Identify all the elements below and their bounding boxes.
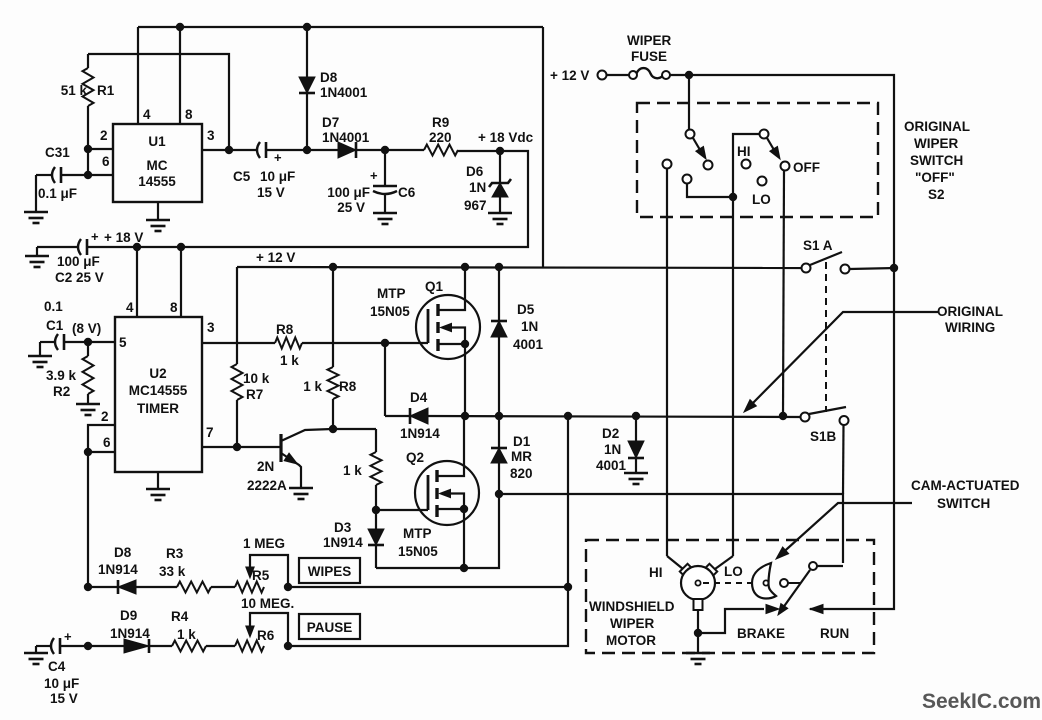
- svg-text:"OFF": "OFF": [915, 170, 955, 185]
- node: D5/D1 column on row: [495, 412, 503, 420]
- node: motor ground/brake junction: [694, 629, 702, 637]
- svg-text:6: 6: [102, 154, 110, 169]
- wire: pin6 node down to wipes row: [87, 452, 89, 587]
- diode D5 1N4001: [498, 267, 500, 321]
- svg-text:3.9 k: 3.9 k: [46, 368, 77, 383]
- svg-text:LO: LO: [724, 564, 743, 579]
- switch S2 pole A top contact: [686, 130, 695, 139]
- resistor R8 1k (collector load): [332, 267, 334, 367]
- switch S2 pole A throw contact: [704, 161, 713, 170]
- node: pin3/R1 feedback: [225, 146, 233, 154]
- fuse WIPER FUSE: [629, 71, 637, 79]
- svg-text:C5: C5: [233, 169, 251, 184]
- svg-text:1 k: 1 k: [177, 627, 196, 642]
- dashed box S2 original wiper switch: [637, 103, 878, 217]
- svg-text:100 μF: 100 μF: [57, 254, 100, 269]
- wire: U2 pin7 row: [202, 446, 279, 448]
- diode D2 1N4001: [635, 416, 637, 441]
- node: wipes/riser junction: [564, 583, 572, 591]
- wire: pin6 of U1: [61, 174, 113, 176]
- wire: U1 pin 4 riser: [137, 27, 139, 124]
- svg-text:10 MEG.: 10 MEG.: [241, 596, 294, 611]
- svg-text:ORIGINAL: ORIGINAL: [937, 304, 1003, 319]
- node: R1/pin2: [84, 145, 92, 153]
- label CAM-ACTUATED SWITCH with arrow: [778, 503, 912, 557]
- wire: OFF contact down to S1B row: [783, 171, 784, 417]
- zener diode D6 1N967: [499, 151, 501, 183]
- resistor R8 1k (pin3 series): [275, 338, 302, 349]
- wire: motor to brake node: [697, 610, 699, 633]
- svg-text:3: 3: [207, 320, 215, 335]
- dashed linkage S1: [825, 262, 827, 412]
- svg-text:967: 967: [464, 198, 487, 213]
- resistor R4 1k: [172, 641, 206, 652]
- svg-text:R8: R8: [339, 379, 357, 394]
- IC U2 MC14555 TIMER box: [115, 317, 202, 472]
- transistor Q1 MTP15N05 (MOSFET): [416, 295, 480, 359]
- node: D8/pin6 column: [84, 583, 92, 591]
- svg-text:1N: 1N: [604, 442, 621, 457]
- svg-text:(8 V): (8 V): [72, 321, 101, 336]
- svg-text:D7: D7: [322, 115, 339, 130]
- ground C6: [373, 212, 397, 215]
- svg-text:1N: 1N: [521, 319, 538, 334]
- svg-text:10 μF: 10 μF: [260, 169, 295, 184]
- switch S1B: [801, 413, 810, 422]
- wire: top rail from U1 pin4 to right edge: [138, 26, 543, 28]
- svg-text:+ 18 V: + 18 V: [104, 230, 143, 245]
- wire: main +12V drop to RUN: [810, 268, 894, 609]
- node: D2 column on row: [632, 412, 640, 420]
- wire: gate node down to D4 row: [384, 343, 386, 416]
- svg-text:FUSE: FUSE: [631, 49, 667, 64]
- svg-text:R6: R6: [257, 628, 275, 643]
- svg-text:D2: D2: [602, 426, 619, 441]
- wire: S1A to +12V feed: [850, 268, 895, 269]
- wire: LO lead into motor: [715, 556, 733, 569]
- svg-text:HI: HI: [649, 565, 663, 580]
- svg-text:4: 4: [126, 300, 134, 315]
- wire: fuse to corner: [670, 75, 894, 267]
- wire: pin2-pin6 tie: [87, 149, 89, 175]
- svg-text:S1B: S1B: [810, 429, 837, 444]
- wire: U1 pin3 output row: [202, 149, 258, 151]
- svg-text:D3: D3: [334, 520, 352, 535]
- svg-text:1 k: 1 k: [280, 353, 299, 368]
- wire: D7 to R9: [356, 149, 424, 151]
- node: D8 column joins pin3 row: [303, 146, 311, 154]
- wire: follower stub to blade: [788, 582, 800, 584]
- cam follower contact (brake): [780, 579, 788, 587]
- capacitor C5 10uF 15V: [257, 142, 260, 158]
- svg-text:33 k: 33 k: [159, 564, 186, 579]
- svg-text:D8: D8: [114, 545, 132, 560]
- wire: U2 pin5 input: [64, 341, 115, 343]
- ground U1: [157, 202, 159, 220]
- motor bottom lug: [694, 599, 703, 610]
- ground D2: [624, 472, 648, 475]
- svg-text:C6: C6: [398, 185, 416, 200]
- svg-text:D5: D5: [517, 302, 535, 317]
- node: D1 to brake/run row: [495, 490, 503, 498]
- diode D8 1N914 (wipes): [88, 586, 118, 588]
- svg-text:TIMER: TIMER: [137, 401, 179, 416]
- svg-text:2: 2: [101, 409, 109, 424]
- node: C1/R2/pin5: [84, 338, 92, 346]
- node: junction D8 top rail: [303, 23, 311, 31]
- wire: right edge drop x=543 to +12V rail: [542, 27, 544, 267]
- svg-text:R2: R2: [53, 384, 70, 399]
- svg-text:WIPER: WIPER: [627, 33, 672, 48]
- node: S2 OFF column on row: [779, 412, 787, 420]
- wire: U2 pin2 stub: [88, 425, 115, 452]
- ground C31: [24, 211, 48, 214]
- svg-text:0.1 μF: 0.1 μF: [38, 186, 77, 201]
- svg-text:R7: R7: [246, 387, 263, 402]
- wire: brake node to brake arrow: [698, 609, 763, 633]
- svg-text:WIPER: WIPER: [610, 616, 655, 631]
- diode D9 1N914 (pause): [88, 645, 124, 647]
- resistor R2 3.9k: [87, 342, 89, 356]
- svg-text:R5: R5: [252, 568, 270, 583]
- svg-text:D6: D6: [466, 164, 484, 179]
- svg-text:R8: R8: [276, 322, 294, 337]
- resistor R3 33k: [177, 582, 211, 593]
- svg-text:C1: C1: [46, 318, 64, 333]
- svg-text:+ 12 V: + 12 V: [550, 68, 589, 83]
- svg-text:2N: 2N: [257, 459, 274, 474]
- svg-text:MOTOR: MOTOR: [606, 633, 656, 648]
- svg-text:R3: R3: [166, 546, 184, 561]
- node: R7 to pin7 row: [233, 443, 241, 451]
- switch S2 LO dummy contact: [758, 177, 767, 186]
- potentiometer R5 1MEG: [235, 582, 264, 593]
- node: Q2 source joins row: [460, 564, 468, 572]
- capacitor C2 100uF 25V: [78, 239, 81, 255]
- ground motor: [697, 633, 699, 653]
- svg-text:WIRING: WIRING: [945, 320, 995, 335]
- svg-text:D4: D4: [410, 390, 428, 405]
- svg-text:ORIGINAL: ORIGINAL: [904, 119, 970, 134]
- capacitor C1 0.1: [55, 334, 58, 350]
- wire: HI contact down to motor: [666, 169, 668, 557]
- dashed box windshield wiper motor: [586, 540, 874, 653]
- IC U1 MC14555 box: [113, 124, 202, 202]
- node: wipes/pause riser on row: [564, 412, 572, 420]
- node: pin6/C31: [84, 171, 92, 179]
- svg-text:+: +: [370, 168, 378, 183]
- switch S2 HI contact: [663, 160, 672, 169]
- svg-text:1 k: 1 k: [303, 379, 322, 394]
- svg-text:OFF: OFF: [793, 160, 820, 175]
- node: S1A/fuse vertical: [890, 264, 898, 272]
- node: Q1 drain on +12V rail: [461, 263, 469, 271]
- node: LO column junction: [729, 193, 737, 201]
- node: U2 pin8 supply: [177, 243, 185, 251]
- capacitor C6 100uF 25V: [384, 150, 386, 186]
- svg-text:1N4001: 1N4001: [322, 130, 370, 145]
- wire: collector node to 1k gate resistor: [332, 428, 376, 430]
- svg-text:15 V: 15 V: [257, 185, 285, 200]
- label ORIGINAL WIRING with arrow: [747, 312, 939, 409]
- node: Q2 gate node: [372, 506, 380, 514]
- node: Q1 source on row: [461, 412, 469, 420]
- ground C4: [24, 652, 48, 655]
- ground U2: [157, 472, 159, 489]
- diode D4 1N914: [410, 415, 428, 417]
- ground 2N2222A emitter: [289, 487, 313, 490]
- svg-text:+: +: [274, 150, 282, 165]
- ground R2: [76, 403, 100, 406]
- svg-text:BRAKE: BRAKE: [737, 626, 785, 641]
- svg-text:1N914: 1N914: [110, 626, 150, 641]
- node +18Vdc: [496, 147, 504, 155]
- wire: D3/Q2 source row: [376, 494, 499, 568]
- cam actuated switch cam: [752, 563, 776, 599]
- diode D3 1N914: [375, 510, 377, 529]
- wire: LO contact to LO column: [687, 184, 729, 198]
- svg-text:15 V: 15 V: [50, 691, 78, 706]
- svg-text:1N914: 1N914: [98, 562, 138, 577]
- wire: wipes row to riser: [288, 586, 568, 588]
- svg-text:15N05: 15N05: [370, 304, 410, 319]
- WIPES box label: [299, 558, 360, 583]
- switch S2 LO contact: [683, 175, 692, 184]
- svg-text:4001: 4001: [596, 458, 627, 473]
- node: junction pin8/top rail: [176, 23, 184, 31]
- motor LO lug: [704, 564, 717, 577]
- svg-text:MTP: MTP: [377, 286, 406, 301]
- node: fuse output: [685, 71, 693, 79]
- potentiometer R6 10MEG: [235, 641, 264, 652]
- svg-text:SWITCH: SWITCH: [937, 496, 990, 511]
- svg-text:8: 8: [170, 300, 178, 315]
- wire: C4 to pause node: [60, 645, 88, 647]
- node: R8 top on +12V rail: [329, 263, 337, 271]
- diode D7 1N4001: [338, 142, 356, 158]
- svg-text:U2: U2: [149, 366, 166, 381]
- svg-text:1N914: 1N914: [400, 426, 440, 441]
- transistor Q2N2222A: [279, 446, 281, 448]
- svg-text:MC: MC: [147, 158, 168, 173]
- resistor R1 51k: [87, 54, 89, 68]
- svg-text:WIPES: WIPES: [308, 564, 352, 579]
- wire: U2 pin6 stub: [88, 451, 115, 453]
- node: D9/pin6 column: [84, 642, 92, 650]
- ground D6: [488, 212, 512, 215]
- PAUSE box label: [299, 614, 360, 639]
- wire: R1 top link to pin3 node: [88, 54, 229, 150]
- switch S2 pole A blade: [693, 138, 703, 155]
- svg-text:1N4001: 1N4001: [320, 85, 368, 100]
- svg-text:3: 3: [207, 128, 215, 143]
- svg-text:D9: D9: [120, 608, 137, 623]
- motor HI lug: [680, 564, 693, 577]
- svg-text:100 μF: 100 μF: [327, 185, 370, 200]
- wire: R4 to R6: [206, 645, 235, 647]
- switch S2 pole B blade: [767, 138, 777, 155]
- svg-text:HI: HI: [737, 144, 751, 159]
- svg-text:+: +: [64, 629, 72, 644]
- resistor R7 10k pullup: [236, 267, 238, 364]
- svg-text:15N05: 15N05: [398, 544, 438, 559]
- wire: fuse down to S2 switch A: [688, 75, 690, 129]
- wire: S1B right contact down to cam run contact: [842, 425, 845, 494]
- svg-text:1 k: 1 k: [343, 463, 362, 478]
- svg-text:+ 12 V: + 12 V: [256, 250, 295, 265]
- resistor R9 220: [424, 145, 458, 156]
- svg-text:D8: D8: [320, 70, 338, 85]
- svg-text:Q1: Q1: [425, 279, 444, 294]
- wire: pause row to riser: [288, 416, 568, 646]
- svg-text:+: +: [91, 229, 99, 244]
- svg-text:PAUSE: PAUSE: [307, 620, 353, 635]
- svg-text:25 V: 25 V: [337, 200, 365, 215]
- svg-text:C2 25 V: C2 25 V: [55, 270, 104, 285]
- svg-text:14555: 14555: [138, 174, 176, 189]
- wire: terminal to fuse: [607, 74, 629, 76]
- wire: R8 to Q1 gate: [302, 342, 428, 344]
- wire: D4/S1B row: [428, 416, 801, 417]
- svg-text:2: 2: [100, 128, 108, 143]
- svg-text:1 MEG: 1 MEG: [243, 536, 285, 551]
- svg-text:5: 5: [119, 335, 127, 350]
- svg-text:R4: R4: [171, 609, 189, 624]
- wire: run contact to S1B drop: [818, 565, 844, 567]
- svg-text:6: 6: [103, 435, 111, 450]
- svg-text:51 k: 51 k: [61, 83, 88, 98]
- wire: pin2 of U1: [88, 148, 113, 150]
- svg-text:MC14555: MC14555: [129, 383, 188, 398]
- switch S2 pole B top contact: [760, 130, 769, 139]
- svg-text:10 k: 10 k: [243, 371, 270, 386]
- svg-text:0.1: 0.1: [44, 299, 63, 314]
- wire: +18Vdc feed to U2 supply row: [88, 151, 528, 247]
- svg-text:7: 7: [206, 425, 214, 440]
- wire: U2 pin8 riser: [180, 247, 182, 317]
- svg-text:RUN: RUN: [820, 626, 849, 641]
- dashed link motor to cam: [703, 582, 762, 584]
- wire: R3 to R5: [211, 586, 235, 588]
- svg-text:WINDSHIELD: WINDSHIELD: [589, 599, 675, 614]
- svg-text:1N914: 1N914: [323, 535, 363, 550]
- ground C1: [28, 355, 52, 358]
- svg-text:C4: C4: [48, 659, 66, 674]
- svg-text:R1: R1: [97, 83, 115, 98]
- svg-text:U1: U1: [148, 134, 166, 149]
- run contact: [809, 562, 817, 570]
- resistor 1k (Q2 gate): [375, 429, 377, 452]
- wire: C5 to D7: [266, 149, 338, 151]
- svg-text:S2: S2: [928, 187, 945, 202]
- wire: pole B common to LO column: [733, 134, 760, 556]
- node: R5 wiper tie: [284, 583, 292, 591]
- switch S2 HI dummy contact: [742, 160, 751, 169]
- node: C6 junction: [381, 146, 389, 154]
- svg-text:2222A: 2222A: [247, 478, 287, 493]
- svg-text:4: 4: [143, 107, 151, 122]
- svg-text:CAM-ACTUATED: CAM-ACTUATED: [911, 478, 1020, 493]
- node: R6 wiper tie: [284, 642, 292, 650]
- cam switch blade: [780, 570, 810, 612]
- svg-text:10 μF: 10 μF: [44, 676, 79, 691]
- wire: U2 pin3 row to gate: [202, 342, 275, 344]
- switch S2 OFF contact: [781, 162, 790, 171]
- node: collector node: [329, 425, 337, 433]
- svg-text:C31: C31: [45, 145, 70, 160]
- svg-text:220: 220: [429, 130, 452, 145]
- wire: +12V rail: [237, 267, 802, 268]
- node: pin2/pin6 tie: [84, 448, 92, 456]
- node: D5 on +12V rail: [495, 263, 503, 271]
- svg-text:+ 18 Vdc: + 18 Vdc: [478, 130, 534, 145]
- wire: run row to cam switch: [499, 494, 843, 563]
- transistor Q2 MTP15N05 (MOSFET): [415, 461, 479, 525]
- node: gate / D4 branch: [381, 339, 389, 347]
- wire: gate node to Q2 gate bar: [376, 509, 428, 511]
- svg-text:MTP: MTP: [403, 526, 432, 541]
- capacitor C4 10uF 15V: [51, 638, 54, 654]
- svg-text:4001: 4001: [513, 337, 544, 352]
- svg-text:8: 8: [185, 107, 193, 122]
- svg-text:WIPER: WIPER: [914, 136, 959, 151]
- wire: U1 pin 8 riser: [179, 27, 181, 124]
- svg-text:SeekIC.com: SeekIC.com: [922, 690, 1041, 713]
- motor body circle: [681, 566, 715, 600]
- svg-text:D1: D1: [513, 434, 531, 449]
- capacitor C31 0.1uF: [52, 167, 55, 183]
- svg-text:S1 A: S1 A: [803, 238, 833, 253]
- svg-text:820: 820: [510, 466, 533, 481]
- diode D8 1N4001 (top): [306, 27, 308, 77]
- svg-text:Q2: Q2: [406, 450, 424, 465]
- svg-text:1N: 1N: [469, 180, 486, 195]
- ground C2: [25, 255, 49, 258]
- svg-text:MR: MR: [511, 449, 532, 464]
- wire: HI lead into motor: [667, 556, 683, 569]
- wire: R9 to +18Vdc node: [458, 150, 500, 152]
- node: U2 pin4 supply: [133, 243, 141, 251]
- wire: U2 pin4 riser: [136, 247, 138, 317]
- svg-text:SWITCH: SWITCH: [910, 153, 963, 168]
- svg-text:R9: R9: [432, 115, 449, 130]
- svg-text:LO: LO: [752, 192, 771, 207]
- diode D1 MR820: [498, 416, 500, 448]
